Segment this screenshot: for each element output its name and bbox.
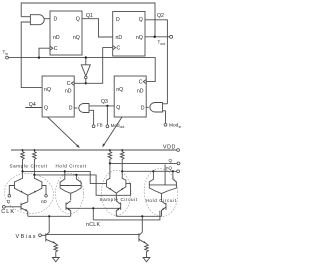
- terminal T_in: [6, 56, 9, 59]
- and-gate G1: [30, 15, 44, 25]
- dashed ellipse hold right: [143, 167, 180, 217]
- pin C of Q2 with clock triangle: [113, 46, 116, 50]
- svg-text:D: D: [54, 16, 58, 22]
- terminal CLK: [2, 205, 5, 208]
- bus nQ output: [122, 170, 177, 172]
- svg-text:C: C: [139, 79, 143, 85]
- wire Q2 output down to gate G3, label Q2: [145, 20, 168, 104]
- wire clock up to C of Q1: [39, 48, 50, 57]
- svg-text:Hold Circuit: Hold Circuit: [56, 163, 87, 168]
- dashed ellipse sample right: [101, 170, 131, 215]
- node R4 rail: [121, 149, 123, 151]
- base input D: [9, 186, 14, 195]
- wire nQ2 to T_out terminal: [145, 36, 170, 38]
- svg-text:nD: nD: [53, 35, 60, 41]
- svg-text:D: D: [141, 106, 145, 112]
- svg-text:C: C: [54, 46, 58, 52]
- svg-text:CLK: CLK: [1, 209, 14, 215]
- wire G3 lower input from Mod_in: [163, 111, 166, 124]
- common emitter line right: [116, 215, 161, 217]
- flip-flop Q1 box: [50, 11, 82, 55]
- svg-text:nQ: nQ: [73, 35, 80, 41]
- svg-text:nD: nD: [116, 35, 123, 41]
- svg-text:out: out: [120, 125, 125, 129]
- svg-text:Sample Circuit: Sample Circuit: [10, 163, 48, 168]
- node R2 rail: [34, 149, 36, 151]
- diagonal pointer from Q3 to implementation: [103, 117, 122, 146]
- common emitter line left: [28, 215, 71, 217]
- node Mod_out tap: [106, 105, 108, 107]
- ground left: [52, 258, 59, 262]
- terminal Mod_in: [164, 123, 167, 126]
- pin C of Q3 with clock triangle: [143, 80, 146, 84]
- base input nD: [42, 186, 46, 195]
- svg-text:in: in: [179, 125, 182, 129]
- resistor R3: [108, 150, 112, 163]
- terminal VDD: [177, 149, 180, 152]
- svg-text:C: C: [67, 81, 71, 87]
- resistor R1: [21, 150, 25, 171]
- svg-text:nQ: nQ: [44, 87, 51, 93]
- svg-text:nD: nD: [41, 199, 48, 204]
- svg-text:out: out: [160, 42, 165, 46]
- pin C of Q4 with clock triangle: [71, 81, 74, 85]
- pin C of Q1 with clock triangle: [50, 46, 53, 50]
- node R3 rail: [109, 149, 111, 151]
- svg-text:Mod: Mod: [169, 123, 179, 129]
- resistor R4: [120, 150, 124, 171]
- wire nCLK between bases: [66, 207, 121, 209]
- terminal FB: [92, 125, 95, 128]
- VBias line: [39, 234, 42, 237]
- svg-text:Q: Q: [76, 16, 80, 22]
- bus collector 2 left: [34, 175, 130, 195]
- svg-text:Q: Q: [116, 105, 120, 111]
- svg-text:nQ: nQ: [136, 35, 143, 41]
- svg-text:VBias: VBias: [16, 234, 36, 240]
- tail transistor left: [45, 233, 47, 241]
- wire inverted clock to C of Q2 (right, up): [86, 48, 113, 84]
- and-gate G2 (mirrored, feeds D of Q4): [79, 104, 89, 113]
- svg-text:VDD: VDD: [163, 145, 175, 151]
- ground right: [143, 258, 150, 262]
- svg-text:Q: Q: [169, 158, 173, 163]
- node R1 rail: [22, 149, 24, 151]
- wire Q4 stub labelled Q4: [25, 107, 42, 109]
- svg-text:D: D: [69, 106, 73, 112]
- flip-flop Q2 box: [113, 12, 145, 57]
- tail transistor right: [138, 233, 140, 241]
- svg-text:FB: FB: [97, 122, 103, 127]
- node clock to FF1: [38, 56, 40, 58]
- wire clock to right hold clock transistor: [93, 211, 160, 220]
- inverter U1: [85, 58, 87, 65]
- transistor pair hold left (cross-coupled): [60, 171, 65, 182]
- svg-text:Q3: Q3: [101, 99, 108, 105]
- node clock to inverter: [85, 56, 87, 58]
- svg-text:D: D: [116, 17, 120, 23]
- node inverted clock: [85, 82, 87, 84]
- svg-text:Q2: Q2: [157, 13, 164, 19]
- resistor R2: [33, 150, 37, 175]
- wire inverted clock to C of Q4 (left): [74, 82, 86, 84]
- transistor pair hold right (cross-coupled): [149, 171, 153, 182]
- VDD rail: [11, 149, 177, 151]
- svg-text:Hold Circuit: Hold Circuit: [146, 198, 177, 203]
- bus Q output: [110, 162, 177, 164]
- svg-text:nQ: nQ: [166, 166, 173, 171]
- clock transistor CLK right (mirrored): [165, 203, 167, 210]
- node T_out junction: [154, 36, 156, 38]
- diagonal pointer from Q4 to implementation: [48, 117, 79, 147]
- svg-text:C: C: [117, 46, 121, 52]
- svg-text:Q: Q: [139, 17, 143, 23]
- transistor pair sample left: [15, 171, 23, 182]
- wire G3 upper input from Q2: [163, 103, 168, 105]
- resistor tail right: [145, 244, 149, 257]
- wire clock line from T_in to FF4 C: [8, 58, 155, 82]
- flip-flop Q4 box (mirrored): [42, 76, 74, 117]
- flip-flop Q3 box (mirrored): [114, 76, 146, 117]
- wire Q1 output to FF2 nD, label Q1: [82, 19, 113, 37]
- clock transistor nCLK right (mirrored): [120, 202, 122, 210]
- wire to Mod_out terminal: [106, 106, 108, 125]
- and-gate G3 (mirrored, feeds D of Q3): [150, 103, 163, 113]
- wire Q3 output to G2 input, label Q3: [89, 105, 114, 107]
- dashed ellipse sample left: [2, 170, 56, 216]
- transistor pair sample right: [107, 163, 110, 180]
- resistor tail left: [54, 244, 58, 257]
- wire FB to G2 input: [89, 110, 94, 125]
- wire top feedback from T_out node to AND gate G1: [21, 3, 155, 37]
- svg-text:nD: nD: [137, 89, 144, 95]
- clock transistor CLK left: [20, 203, 22, 211]
- svg-text:Q1: Q1: [86, 13, 93, 19]
- svg-text:in: in: [5, 52, 8, 56]
- svg-text:Q: Q: [44, 106, 48, 112]
- terminal T_out: [170, 35, 173, 38]
- clock transistor nCLK left: [65, 202, 67, 210]
- bus collector 1 left: [23, 171, 107, 183]
- svg-text:Q4: Q4: [29, 102, 36, 108]
- svg-text:nQ: nQ: [116, 87, 123, 93]
- svg-text:nD: nD: [65, 89, 72, 95]
- dashed ellipse hold left: [56, 173, 84, 214]
- svg-text:nCLK: nCLK: [86, 222, 101, 228]
- wire G1 output to FF1 D: [44, 18, 50, 20]
- wire G1 lower input from Q4 nQ: [21, 22, 42, 88]
- svg-text:Sample Circuit: Sample Circuit: [100, 197, 138, 202]
